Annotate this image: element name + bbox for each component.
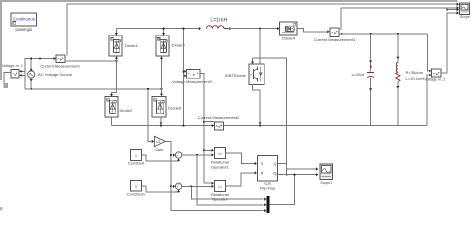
svg-text:L=19.1mH: L=19.1mH — [406, 76, 425, 81]
diode D4 — [280, 22, 298, 35]
D1 top riser — [115, 29, 117, 36]
svg-text:Diode5: Diode5 — [168, 106, 182, 111]
VM3 input stub + — [184, 71, 187, 73]
IGBT collector riser — [259, 29, 261, 65]
diode bridge left leg lower — [112, 61, 117, 96]
current measurement CM1 — [330, 28, 339, 37]
svg-text:Voltage Measurement3: Voltage Measurement3 — [172, 80, 212, 84]
RO1 top input wire — [204, 149, 211, 151]
svg-text:Voltage m..2: Voltage m..2 — [424, 78, 445, 82]
wire D4 to CM1 — [297, 29, 327, 32]
top bus — [116, 28, 199, 30]
svg-text:powergui: powergui — [15, 27, 32, 32]
wire inductor to D4 — [228, 28, 279, 30]
gain feed tap — [148, 89, 151, 142]
IGBT emitter wire — [253, 84, 261, 125]
VM3 input stub - — [184, 75, 187, 77]
svg-text:+: + — [178, 151, 180, 155]
svg-text:Diode2: Diode2 — [120, 108, 134, 113]
D2 bottom riser — [111, 117, 113, 126]
mux input 2 arrow — [264, 203, 266, 206]
svg-text:<=: <= — [218, 152, 223, 156]
IGBT/Diode block Q1 — [249, 64, 264, 84]
svg-text:Diode4: Diode4 — [282, 36, 296, 41]
svg-text:Flip-Flop: Flip-Flop — [260, 186, 276, 191]
inductor L1 wire-in arrow — [199, 27, 201, 30]
svg-text:R=35ohm: R=35ohm — [406, 70, 424, 75]
constant block — [130, 150, 141, 161]
svg-text:Q: Q — [274, 162, 277, 166]
scope input 4 arrow — [457, 11, 459, 14]
sum2 input arrow — [171, 185, 173, 187]
mux — [267, 196, 270, 213]
window frame top edge — [0, 0, 458, 2]
svg-text:Gain: Gain — [155, 147, 164, 152]
VM3 input riser — [183, 29, 185, 126]
svg-text:L=1mH: L=1mH — [210, 18, 227, 24]
gain triangle — [154, 136, 165, 146]
diode D5 — [152, 97, 166, 118]
left loop wire — [25, 59, 54, 89]
svg-text:IGBT/Diode: IGBT/Diode — [225, 73, 247, 78]
VM1 output wire — [4, 72, 11, 84]
svg-text:<=: <= — [218, 185, 223, 189]
relational operator RO1 — [214, 148, 225, 159]
svg-text:Operator: Operator — [212, 197, 228, 202]
FF notQ output wire — [278, 174, 317, 176]
capacitor branch — [370, 34, 372, 71]
sum node S1 — [175, 152, 181, 158]
DC bus top — [339, 33, 428, 35]
sum2 output wire — [182, 185, 212, 187]
scope1 block — [320, 164, 333, 179]
powergui block — [11, 13, 37, 26]
AC neutral rail — [25, 88, 162, 90]
voltage measurement VM2 — [432, 69, 441, 77]
D4 input arrow — [277, 27, 279, 30]
svg-text:Continuous: Continuous — [13, 17, 36, 22]
constant wire — [142, 155, 179, 161]
RO2 to FF R wire — [225, 173, 255, 186]
svg-text:Scope1: Scope1 — [320, 181, 332, 185]
inductor L1 — [207, 26, 224, 29]
svg-text:Operator1: Operator1 — [211, 164, 230, 169]
scope block — [460, 3, 470, 15]
D5 bottom riser — [160, 117, 162, 126]
mux input 3 arrow — [264, 209, 266, 212]
svg-text:Current Measurement: Current Measurement — [40, 63, 80, 68]
voltage measurement VM1 — [11, 69, 19, 78]
IGBT top-left port arrow — [251, 62, 254, 64]
gain output riser — [165, 141, 263, 210]
sum2 to mux riser — [191, 186, 263, 199]
scope input 2 arrow — [457, 6, 459, 9]
corner speck — [0, 207, 2, 210]
bridge right leg — [161, 56, 163, 96]
svg-text:Scope: Scope — [460, 15, 470, 19]
scope input 3 arrow — [457, 8, 459, 11]
svg-text:AC Voltage Source: AC Voltage Source — [38, 72, 73, 77]
mux input 1 arrow — [264, 198, 266, 201]
VM1 input stub - — [19, 74, 25, 76]
IGBT m wire — [253, 58, 287, 175]
mid bus right corner — [427, 75, 428, 126]
svg-text:+: + — [178, 183, 180, 187]
RO1 to FF S wire — [225, 153, 255, 164]
mux output wire — [269, 175, 294, 205]
relational operator RO2 — [214, 181, 225, 192]
D3 top riser — [163, 29, 165, 36]
svg-text:R: R — [261, 172, 264, 176]
FF Q output wire — [278, 164, 317, 170]
CM input arrow — [54, 57, 56, 60]
constant1 block — [130, 180, 141, 191]
VM2 output wire — [441, 13, 457, 73]
constant1 wire — [142, 186, 179, 192]
svg-text:Constant1: Constant1 — [127, 191, 146, 196]
diode D2 — [105, 97, 118, 117]
S-R flip-flop U1 — [258, 156, 278, 181]
diode D3 — [156, 36, 169, 56]
current measurement CM — [56, 55, 65, 63]
series RLC branch R=35ohm L=19.1mH — [397, 34, 399, 63]
voltage measurement VM3 — [187, 69, 201, 78]
svg-text:1/2: 1/2 — [156, 140, 161, 144]
AC hot rail — [65, 60, 117, 62]
VM3 output signal riser — [200, 74, 204, 184]
CM1 right stub arrow — [340, 33, 342, 36]
mid bus — [112, 125, 428, 127]
CM1 i-signal riser — [341, 8, 457, 30]
VM1 input stub + — [19, 70, 25, 72]
inductor out arrow — [229, 27, 231, 30]
sum1 to mux riser — [197, 155, 264, 205]
window frame left edge — [0, 0, 2, 80]
current measurement CM2 — [214, 122, 223, 130]
svg-text:Voltage m..1: Voltage m..1 — [2, 64, 23, 68]
sum node S2 — [175, 183, 181, 189]
CM2 input arrow — [212, 124, 214, 127]
CM2 signal hook — [204, 121, 214, 123]
diode D1 — [109, 36, 122, 56]
RO2 top input wire — [204, 182, 211, 184]
DC bus right corner — [428, 34, 429, 71]
svg-text:Diode1: Diode1 — [125, 43, 139, 48]
sum1 input arrow — [171, 154, 173, 156]
svg-text:c=25uf: c=25uf — [352, 72, 365, 77]
AC source top riser — [30, 59, 32, 71]
sum1 output wire — [182, 154, 212, 156]
AC source bottom riser — [30, 78, 32, 89]
CM i-signal riser — [67, 4, 457, 56]
scope input 1 arrow — [457, 3, 459, 6]
svg-text:1: 1 — [135, 184, 137, 189]
svg-text:Current Measurement2: Current Measurement2 — [198, 115, 240, 120]
svg-text:Constant: Constant — [128, 161, 145, 166]
AC voltage source V1 — [28, 71, 35, 78]
svg-text:Current Measurement1: Current Measurement1 — [314, 37, 356, 42]
diode bridge left leg upper — [116, 56, 118, 61]
svg-text:1: 1 — [135, 153, 137, 158]
svg-text:!Q: !Q — [273, 172, 277, 176]
